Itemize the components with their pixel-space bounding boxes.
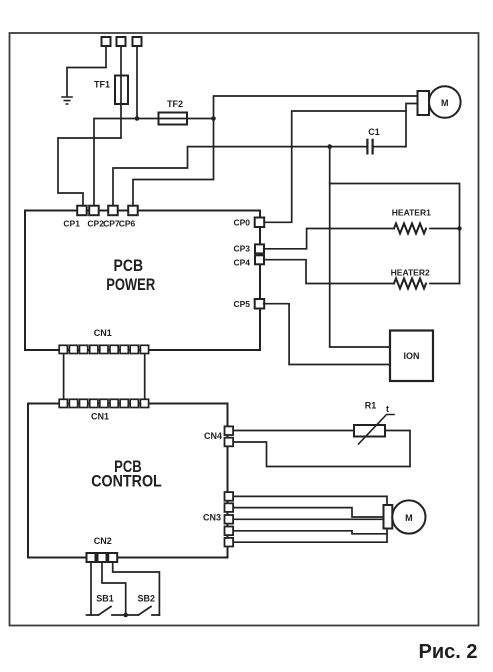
- wire: CP3 to HEATER1: [264, 229, 394, 249]
- node: junction TF2/motor/CP6: [211, 116, 216, 121]
- wire: R1 return loop: [233, 431, 410, 467]
- svg-text:CN4: CN4: [204, 431, 222, 441]
- motor M1: [418, 91, 430, 115]
- wire: CN2.2 to SB1/SB2 node: [102, 562, 126, 615]
- svg-text:SB1: SB1: [96, 594, 114, 604]
- svg-text:CP6: CP6: [119, 219, 136, 229]
- terminal CP5: [255, 299, 265, 309]
- svg-text:SB2: SB2: [138, 594, 156, 604]
- node: junction CP7/C1/heaters: [327, 144, 332, 149]
- capacitor C1: [367, 140, 372, 154]
- svg-text:PCB: PCB: [114, 257, 144, 275]
- wire: CN3.4 to motor M2: [233, 531, 387, 534]
- wire: CN3.2 to motor M2: [233, 508, 383, 517]
- wire: CN1 link left: [63, 354, 65, 399]
- terminal CP1: [77, 206, 87, 216]
- terminal CP4: [255, 255, 264, 264]
- node: junction pin3/TF2: [135, 116, 140, 121]
- svg-text:CP4: CP4: [233, 257, 250, 267]
- wire: CN3.5 to motor M2 bottom: [233, 529, 387, 543]
- wire: junction up to motor M1: [214, 96, 418, 119]
- svg-text:CONTROL: CONTROL: [91, 473, 162, 491]
- wire: CN3.1 to motor M2 top: [233, 496, 387, 505]
- svg-text:R1: R1: [365, 401, 377, 411]
- resistor HEATER2: [394, 279, 426, 289]
- wire: CP7 to C1 node: [113, 147, 330, 206]
- wire: TF1 to CP1: [58, 104, 121, 206]
- wire: CP5 to ION: [264, 304, 390, 365]
- svg-text:CP1: CP1: [63, 219, 80, 229]
- svg-text:ION: ION: [403, 351, 419, 361]
- wire: CN4.1 to R1: [233, 430, 354, 432]
- svg-text:TF1: TF1: [94, 80, 110, 90]
- svg-text:t: t: [386, 404, 389, 414]
- terminal CP7: [108, 206, 118, 216]
- wire: CP0 to motor M1 lower terminal: [264, 111, 406, 222]
- node: heater1 right junction: [457, 226, 461, 230]
- resistor HEATER1: [394, 224, 426, 234]
- wire: CP2 up to TF2 line: [94, 119, 214, 207]
- wire: CN2.1 to SB1: [90, 562, 92, 615]
- PCB POWER box U1: [25, 211, 260, 351]
- svg-text:CN3: CN3: [203, 513, 221, 523]
- svg-text:CN2: CN2: [94, 536, 112, 546]
- svg-text:CN1: CN1: [94, 328, 112, 338]
- svg-text:CP2: CP2: [87, 219, 104, 229]
- svg-text:CP0: CP0: [233, 218, 250, 228]
- wire: junction down to CP6: [133, 119, 214, 207]
- thermistor R1: [354, 425, 385, 437]
- wire: CN3.3 to motor M2: [233, 518, 383, 520]
- fuse TF1: [115, 76, 128, 105]
- svg-text:HEATER2: HEATER2: [391, 268, 430, 278]
- wire: CN2.3 to SB2: [113, 562, 160, 615]
- svg-text:CP7: CP7: [103, 219, 120, 229]
- wire: plug pin 2 down to fuse TF1: [120, 46, 122, 104]
- svg-text:Рис. 2: Рис. 2: [419, 641, 478, 663]
- svg-text:CN1: CN1: [91, 412, 109, 422]
- terminal CP6: [128, 206, 138, 216]
- node: SB junction: [123, 613, 128, 618]
- connector CN1 bottom row: [59, 399, 148, 407]
- svg-text:TF2: TF2: [167, 99, 183, 109]
- terminal CP2: [89, 206, 99, 216]
- wire: plug pin 1 to ground: [67, 46, 106, 96]
- switch SB2: [126, 607, 160, 616]
- wire: plug pin 3 down to TF2 line: [136, 46, 138, 119]
- switch SB1: [87, 607, 126, 616]
- ION box: [390, 331, 433, 382]
- wire: heater bus top: [330, 147, 390, 347]
- svg-text:HEATER1: HEATER1: [392, 207, 431, 217]
- svg-text:M: M: [405, 513, 413, 523]
- wire: CP4 to HEATER2: [264, 260, 394, 284]
- motor M2: [384, 505, 393, 529]
- svg-text:POWER: POWER: [106, 276, 155, 294]
- terminal CP0: [255, 218, 265, 228]
- plug terminal pins: [102, 37, 111, 46]
- terminal CP3: [255, 244, 264, 253]
- wire: CN1 link right: [144, 354, 146, 399]
- ground: [62, 97, 72, 104]
- svg-text:CP3: CP3: [233, 243, 250, 253]
- wire: C1 left lead: [330, 146, 367, 148]
- svg-text:C1: C1: [368, 127, 380, 137]
- PCB CONTROL box U2: [28, 404, 228, 558]
- fuse TF2: [159, 113, 188, 125]
- wire: C1 right lead to motor M1: [373, 104, 417, 147]
- svg-text:M: M: [441, 98, 449, 108]
- svg-text:CP5: CP5: [233, 299, 250, 309]
